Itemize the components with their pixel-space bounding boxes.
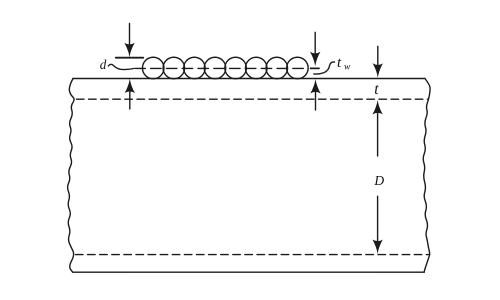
t_w dimension upper arrow shaft <box>314 32 316 55</box>
t_w dimension up arrowhead <box>310 79 320 94</box>
svg-text:t: t <box>337 55 342 71</box>
t/D up arrowhead at upper dashed line <box>372 100 382 115</box>
wire coil circle 4 <box>204 57 226 79</box>
tick/dash right of circles (t_w dimension) <box>311 67 319 69</box>
D down arrowhead at lower dashed line <box>372 240 382 255</box>
t_w dimension lower arrow shaft <box>315 91 317 110</box>
d dimension lower arrow shaft <box>129 91 131 109</box>
d dimension up arrowhead <box>125 79 135 94</box>
upper dashed line (inner surface) <box>77 98 429 100</box>
plate bottom surface line <box>73 271 425 273</box>
tick at top of circles (d dimension) <box>116 57 144 59</box>
d dimension down arrowhead <box>124 43 134 58</box>
t dimension down arrowhead <box>373 63 383 78</box>
right torn edge of plate <box>423 79 430 273</box>
D lower arrow shaft <box>377 196 379 243</box>
wire coil circle 1 <box>142 57 164 79</box>
wire coil circle 2 <box>163 57 185 79</box>
svg-text:d: d <box>100 57 107 72</box>
t lower / D upper shared arrow shaft <box>377 112 379 156</box>
t dimension upper arrow shaft <box>377 46 379 66</box>
lower dashed line (inner surface) <box>76 254 430 256</box>
t_w leader squiggle <box>314 62 335 74</box>
t_w dimension down arrowhead <box>310 52 320 67</box>
d dimension upper arrow shaft <box>129 24 131 47</box>
svg-text:w: w <box>344 62 351 72</box>
wire coil circle 7 <box>266 57 288 79</box>
wire coil circle 8 <box>287 57 309 79</box>
svg-text:t: t <box>374 81 379 98</box>
wire coil circle 3 <box>184 57 206 79</box>
svg-text:D: D <box>373 173 384 188</box>
dashed centerline through circles <box>135 67 307 69</box>
d leader squiggle <box>108 64 133 69</box>
plate top surface line <box>73 78 425 80</box>
wire coil circle 6 <box>245 57 267 79</box>
left torn edge of plate <box>68 79 74 273</box>
wire coil circle 5 <box>225 57 247 79</box>
